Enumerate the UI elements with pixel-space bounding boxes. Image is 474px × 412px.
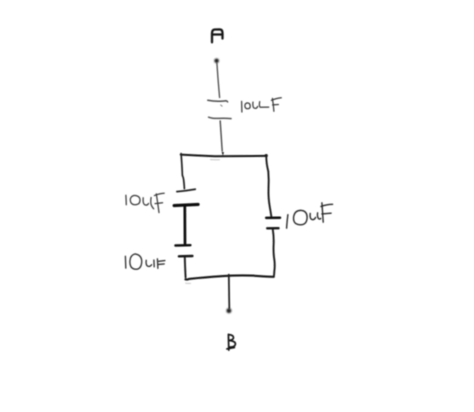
wire from C3 to bottom rail <box>184 258 187 278</box>
thick wire between C2 and C3 <box>183 207 186 244</box>
top-right rail end dot <box>265 154 268 157</box>
node A terminal dot <box>214 59 219 64</box>
faint smudge under top rail <box>211 159 220 161</box>
wire: left rail drop to C2 <box>181 154 184 189</box>
wire: right rail drop to C4 <box>266 156 271 216</box>
capacitor C3 (left branch, bottom) <box>175 245 192 256</box>
wire from node A to capacitor C1 <box>217 63 220 97</box>
node B terminal dot <box>226 308 231 313</box>
node A label <box>212 29 223 42</box>
value label 10uF for C3 <box>125 254 164 269</box>
junction arrowhead on top rail <box>222 152 224 156</box>
capacitor C4 (right branch) <box>266 218 280 229</box>
capacitor C1 (series, top) <box>208 100 231 118</box>
value label 10uF for C1 <box>242 98 282 112</box>
bottom rail wire <box>185 275 273 279</box>
value label 10uF for C2 <box>126 193 164 212</box>
wire from C4 to bottom rail <box>273 230 275 276</box>
faint smudge under bottom-left corner <box>186 282 191 284</box>
wire from C1 to top rail <box>220 121 222 151</box>
top rail wire <box>181 155 267 157</box>
node B label <box>227 334 236 350</box>
value label 10uF for C4 <box>287 203 333 228</box>
wire from bottom rail to node B <box>228 275 231 308</box>
capacitor C2 (left branch, top) <box>174 189 198 205</box>
